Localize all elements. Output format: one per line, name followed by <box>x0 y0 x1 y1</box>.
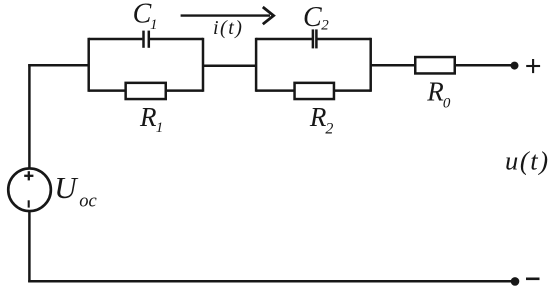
wire: RC2 to R0 <box>371 64 415 67</box>
wire: RC2 left edge <box>255 38 258 92</box>
svg-text:1: 1 <box>156 120 164 136</box>
wire: RC1 top branch left segment <box>89 38 143 41</box>
label R0 <box>426 76 451 111</box>
wire: RC2 right edge <box>369 38 372 92</box>
label R2 <box>309 102 334 138</box>
svg-text:2: 2 <box>325 121 333 138</box>
wire: RC2 bottom branch right segment <box>334 89 371 92</box>
label R1 <box>139 102 163 136</box>
wire: RC1 right edge <box>202 38 205 92</box>
wire: RC1 bottom branch right segment <box>165 89 203 92</box>
svg-text:2: 2 <box>321 17 329 33</box>
svg-text:U: U <box>54 170 79 205</box>
wire: stub from left rail to RC block 1 <box>28 64 88 67</box>
label: minus polarity mark <box>526 277 540 280</box>
label: plus polarity mark <box>526 59 540 73</box>
wire: RC2 bottom branch left segment <box>256 89 295 92</box>
svg-text:0: 0 <box>443 95 451 111</box>
wire: bottom rail <box>28 280 515 283</box>
wire: RC1 left edge <box>87 38 90 92</box>
capacitor C2 <box>313 29 317 48</box>
wire: RC1 top branch right segment <box>150 38 203 41</box>
wire: RC2 top branch right segment <box>318 38 371 41</box>
svg-text:R: R <box>426 76 444 106</box>
label C1 <box>133 0 158 33</box>
resistor R2 <box>295 83 334 99</box>
resistor R0 <box>415 57 455 73</box>
svg-text:i(t): i(t) <box>213 17 243 39</box>
svg-text:C: C <box>133 0 152 29</box>
svg-text:R: R <box>139 102 157 132</box>
wire: R0 to positive terminal <box>455 64 514 67</box>
current arrow i(t) <box>181 7 274 24</box>
wire: RC1 bottom branch left segment <box>89 89 126 92</box>
wire: left rail lower segment <box>28 212 31 282</box>
wire: left rail upper segment <box>28 64 31 167</box>
svg-text:1: 1 <box>150 17 158 33</box>
svg-text:R: R <box>309 102 327 132</box>
svg-text:oc: oc <box>79 191 97 211</box>
resistor R1 <box>126 83 166 99</box>
label U_oc <box>54 170 97 212</box>
wire: RC2 top branch left segment <box>256 38 312 41</box>
wire: link between RC1 and RC2 <box>203 64 256 67</box>
capacitor C1 <box>144 31 149 48</box>
node: positive output terminal <box>511 62 519 70</box>
label C2 <box>303 2 329 34</box>
voltage source U_oc <box>8 168 51 211</box>
node: negative output terminal <box>511 277 520 286</box>
svg-text:u(t): u(t) <box>505 146 550 176</box>
svg-text:C: C <box>303 2 322 33</box>
